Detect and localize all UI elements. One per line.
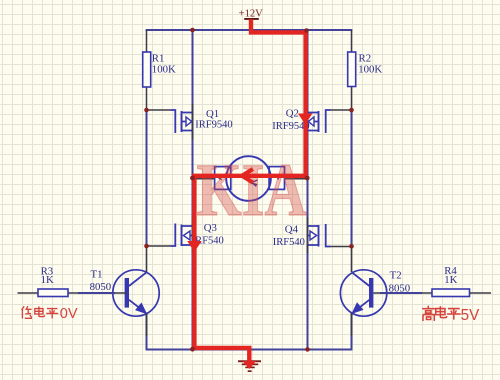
current arrow at ground bbox=[243, 361, 257, 369]
svg-text:100K: 100K bbox=[152, 63, 176, 75]
junction bottom rail at Q3 source bbox=[190, 347, 195, 352]
transistor T2 8050 NPN (mirrored) bbox=[340, 246, 410, 336]
label low-level 0V (red) bbox=[22, 306, 78, 322]
wire R3 to T1 base bbox=[78, 292, 127, 294]
watermark KIA bbox=[197, 149, 307, 232]
svg-text:T2: T2 bbox=[390, 270, 402, 282]
junction T1 collector / Q3 gate bbox=[144, 244, 149, 249]
wire T1 emitter to bottom rail bbox=[146, 313, 148, 350]
svg-text:+12V: +12V bbox=[239, 9, 264, 20]
svg-text:T1: T1 bbox=[91, 268, 103, 280]
junction R2 bottom / Q2 gate bbox=[349, 108, 354, 113]
wire top rail bbox=[146, 29, 353, 31]
svg-text:IRF540: IRF540 bbox=[273, 237, 305, 248]
label high-level 5V (red) bbox=[422, 306, 480, 324]
transistor Q3 IRF540 N-MOSFET bbox=[147, 217, 223, 253]
junction motor left terminal node bbox=[190, 176, 195, 181]
svg-text:KIA: KIA bbox=[197, 149, 307, 232]
junction T2 collector / Q4 gate bbox=[349, 244, 354, 249]
junction on top rail at Q1 drain bbox=[190, 28, 195, 33]
svg-text:Q2: Q2 bbox=[286, 108, 299, 120]
current arrow at Q3 bbox=[187, 241, 201, 252]
junction motor right terminal node bbox=[305, 176, 310, 181]
ground symbol bbox=[238, 360, 261, 372]
transistor Q4 IRF540 N-MOSFET (mirrored) bbox=[273, 217, 351, 253]
resistor R4 1K bbox=[422, 265, 491, 297]
junction on top rail at Q2 drain bbox=[304, 28, 309, 33]
transistor Q2 IRF9540 P-MOSFET (mirrored) bbox=[272, 108, 351, 133]
wire highlighted current path (red) bbox=[194, 19, 305, 361]
current arrow at Q2 bbox=[298, 114, 312, 125]
wire left inner vertical (motor left node to bottom rail) bbox=[192, 178, 194, 350]
svg-text:R2: R2 bbox=[359, 52, 372, 64]
wire bottom rail bbox=[146, 349, 353, 351]
wire R4 to T2 base bbox=[373, 292, 422, 294]
transistor Q1 IRF9540 P-MOSFET bbox=[147, 104, 232, 140]
wire left column (R1 bottom junction to T1 collector junction) bbox=[146, 110, 148, 246]
transistor T1 8050 NPN bbox=[90, 246, 160, 336]
svg-text:Q1: Q1 bbox=[206, 108, 219, 120]
svg-text:8050: 8050 bbox=[90, 281, 112, 293]
resistor R2 100K bbox=[348, 30, 383, 110]
svg-text:100K: 100K bbox=[358, 64, 382, 76]
resistor R3 1K bbox=[18, 266, 79, 297]
power +12V symbol bbox=[239, 9, 264, 20]
wire right inner vertical (top rail to motor right node) bbox=[307, 30, 309, 178]
junction R1 bottom / Q1 gate bbox=[144, 108, 149, 113]
wire T2 emitter to bottom rail bbox=[351, 313, 353, 350]
current arrow through motor bbox=[242, 169, 253, 183]
resistor R1 100K bbox=[143, 30, 176, 110]
svg-text:1K: 1K bbox=[41, 274, 54, 286]
svg-text:0V: 0V bbox=[60, 306, 78, 322]
motor M1 (DC motor symbol) bbox=[193, 156, 308, 201]
junction bottom rail at Q4 source bbox=[305, 347, 310, 352]
svg-text:5V: 5V bbox=[461, 307, 480, 324]
svg-text:1K: 1K bbox=[444, 274, 457, 286]
svg-text:IRF9540: IRF9540 bbox=[195, 120, 232, 131]
wire left inner vertical (top rail to motor left node) bbox=[192, 30, 194, 178]
wire right column (R2 bottom junction to T2 collector junction) bbox=[351, 110, 353, 246]
wire right inner vertical (motor right node to bottom rail) bbox=[307, 178, 309, 350]
